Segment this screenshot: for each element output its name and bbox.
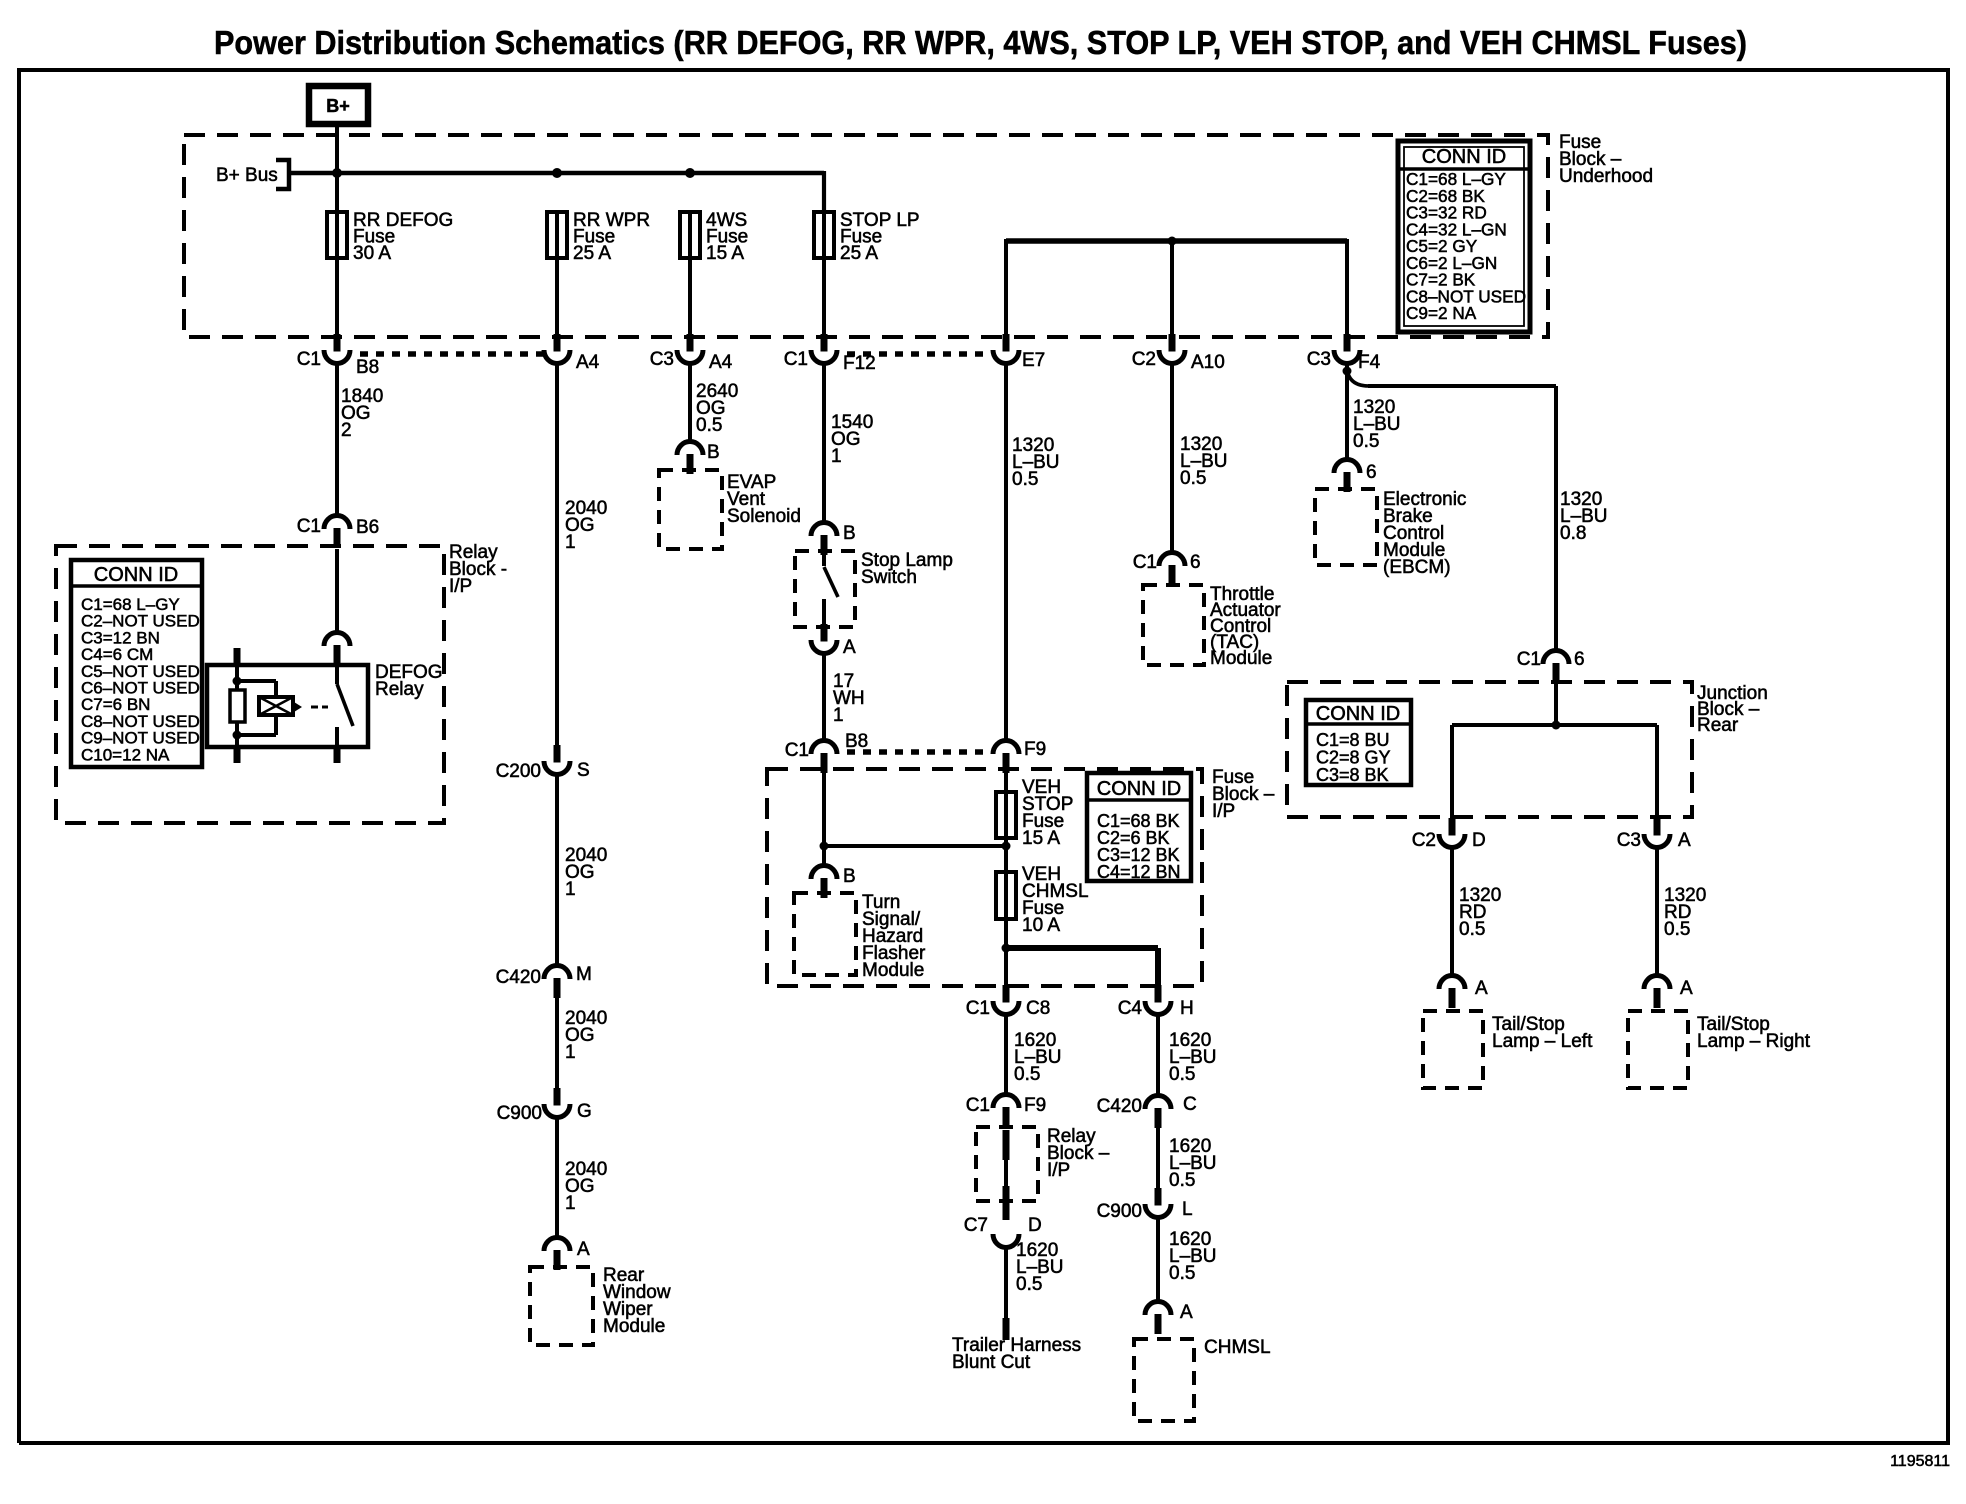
svg-text:C3: C3 xyxy=(1617,830,1641,851)
wire B+ to bus xyxy=(335,124,339,213)
mechanical link dashes xyxy=(311,706,318,709)
svg-text:B: B xyxy=(707,442,720,463)
svg-text:F9: F9 xyxy=(1024,1095,1046,1116)
svg-text:Relay: Relay xyxy=(375,679,424,700)
svg-text:25 A: 25 A xyxy=(573,243,611,264)
svg-text:C420: C420 xyxy=(496,967,541,988)
svg-text:C1: C1 xyxy=(966,998,990,1019)
connector C900 G xyxy=(554,1088,561,1106)
DEFOG relay pin stub upper left xyxy=(234,648,241,666)
connector at DEFOG relay coil xyxy=(324,633,350,647)
svg-text:Power Distribution Schematics: Power Distribution Schematics (RR DEFOG,… xyxy=(214,24,1747,61)
svg-text:1: 1 xyxy=(831,446,842,467)
connector F9 (fuse block I/P) xyxy=(993,741,1019,755)
connector C1 B8 (fuse block I/P) xyxy=(811,741,837,755)
connector C2 A10 xyxy=(1169,334,1176,352)
svg-text:F9: F9 xyxy=(1024,739,1046,760)
CONN ID table (Fuse Block - I/P) xyxy=(1087,773,1191,881)
wire switch to C1 B8 xyxy=(822,654,826,742)
wire coil branch xyxy=(237,679,276,683)
connector C4 H xyxy=(1155,985,1162,1003)
wire A10 to TAC xyxy=(1170,364,1174,554)
wire branch to C4 H xyxy=(1006,945,1158,951)
B+ power symbol xyxy=(309,86,368,124)
wire F4 to EBCM xyxy=(1345,364,1349,461)
Fuse Block - I/P dashed box xyxy=(767,769,1202,986)
svg-text:A: A xyxy=(1475,978,1488,999)
svg-text:E7: E7 xyxy=(1022,350,1045,371)
svg-text:C10=12 NA: C10=12 NA xyxy=(81,745,170,764)
DEFOG relay coil feed wire xyxy=(235,665,239,690)
junction feeder at A10 xyxy=(1168,237,1177,246)
svg-text:Module: Module xyxy=(862,960,924,981)
connector B at EVAP xyxy=(677,442,703,456)
resistor in DEFOG relay xyxy=(230,690,245,722)
connector C1 6 at TAC xyxy=(1159,553,1185,567)
svg-text:M: M xyxy=(576,964,592,985)
wire D to blunt cut xyxy=(1004,1247,1008,1320)
svg-text:Blunt Cut: Blunt Cut xyxy=(952,1352,1031,1373)
connector B at stop lamp switch xyxy=(811,523,837,537)
svg-text:Switch: Switch xyxy=(861,567,917,588)
CHMSL box xyxy=(1134,1339,1194,1421)
fuse STOP LP 25 A xyxy=(822,213,826,259)
connector C7 D xyxy=(1003,1186,1010,1220)
wire F12 to stop lamp switch xyxy=(822,364,826,524)
Relay Block - I/P dashed box xyxy=(56,546,444,823)
svg-text:15 A: 15 A xyxy=(1022,828,1060,849)
svg-text:1: 1 xyxy=(565,1042,576,1063)
svg-text:0.5: 0.5 xyxy=(1169,1170,1195,1191)
svg-text:C: C xyxy=(1183,1094,1197,1115)
DEFOG relay pin stub lower right xyxy=(334,747,341,763)
connector C1 C8 xyxy=(1003,985,1010,1003)
svg-text:D: D xyxy=(1472,830,1486,851)
connector C2 D xyxy=(1449,818,1456,836)
svg-text:A: A xyxy=(1678,830,1691,851)
wire RR WPR fuse to connector xyxy=(555,259,559,335)
svg-text:10 A: 10 A xyxy=(1022,915,1060,936)
svg-text:0.5: 0.5 xyxy=(1014,1064,1040,1085)
svg-text:CONN ID: CONN ID xyxy=(1316,703,1400,725)
junction tie left xyxy=(820,842,829,851)
connector C1 B8 (fuse block underhood) xyxy=(334,334,341,352)
svg-text:Underhood: Underhood xyxy=(1559,166,1653,187)
svg-text:B: B xyxy=(843,866,856,887)
svg-text:1: 1 xyxy=(565,879,576,900)
Fuse Block - Underhood dashed box xyxy=(184,135,1548,337)
wire F9 to VEH STOP fuse xyxy=(1004,772,1008,792)
svg-text:I/P: I/P xyxy=(1212,801,1235,822)
junction in junction block xyxy=(1552,721,1561,730)
junction tie right xyxy=(1002,842,1011,851)
svg-text:I/P: I/P xyxy=(1047,1160,1070,1181)
junction CHMSL branch xyxy=(1002,944,1011,953)
Tail/Stop Lamp - Left box xyxy=(1423,1011,1483,1088)
wire A to tail lamp right xyxy=(1655,848,1659,977)
svg-text:B8: B8 xyxy=(845,731,868,752)
connector C3 F4 xyxy=(1344,334,1351,352)
svg-text:A: A xyxy=(1180,1302,1193,1323)
svg-text:0.5: 0.5 xyxy=(696,415,722,436)
svg-text:1: 1 xyxy=(833,705,844,726)
connector C3 A xyxy=(1654,818,1661,836)
svg-text:B8: B8 xyxy=(356,357,379,378)
coil arrow xyxy=(294,702,302,712)
svg-text:0.5: 0.5 xyxy=(1664,919,1690,940)
wire between fuses xyxy=(1004,838,1008,872)
svg-text:A4: A4 xyxy=(709,352,733,373)
connector E7 xyxy=(1003,334,1010,352)
DEFOG relay pin stub lower left xyxy=(234,747,241,763)
connector A at CHMSL xyxy=(1145,1302,1171,1316)
svg-text:Module: Module xyxy=(1210,648,1272,669)
svg-text:0.5: 0.5 xyxy=(1180,468,1206,489)
svg-text:A: A xyxy=(843,637,856,658)
fuse 4WS 15 A xyxy=(688,213,692,259)
wire B+ bus xyxy=(289,171,824,176)
Rear Window Wiper Module box xyxy=(530,1267,593,1345)
EVAP Vent Solenoid box xyxy=(659,470,722,549)
wire C420 to C900 xyxy=(1156,1128,1160,1189)
connector A4 (RR WPR) xyxy=(554,334,561,352)
node B+ Bus bracket xyxy=(276,160,289,189)
svg-text:CONN ID: CONN ID xyxy=(1422,146,1506,168)
CONN ID table (Fuse Block - Underhood) xyxy=(1398,141,1530,332)
CONN ID table (Relay Block - I/P) xyxy=(71,560,202,767)
dotted connector line B8-A4 xyxy=(360,351,545,357)
connector C200 S xyxy=(554,745,561,763)
svg-text:C3=8 BK: C3=8 BK xyxy=(1316,765,1389,785)
CONN ID table (Junction Block - Rear) xyxy=(1306,700,1411,785)
wire F4 to junction block xyxy=(1347,369,1369,386)
svg-text:L: L xyxy=(1182,1199,1193,1220)
junction on bus at RR WPR xyxy=(552,168,562,178)
svg-text:0.5: 0.5 xyxy=(1012,469,1038,490)
Electronic Brake Control Module box xyxy=(1315,489,1377,565)
connector A at wiper module xyxy=(544,1238,570,1252)
svg-text:C1: C1 xyxy=(1133,552,1157,573)
svg-text:C3: C3 xyxy=(650,349,674,370)
connector C900 L xyxy=(1155,1188,1162,1206)
junction on bus at RR DEFOG xyxy=(332,168,342,178)
Junction Block - Rear dashed box xyxy=(1287,682,1692,817)
wire B8 to B6 xyxy=(335,364,339,517)
svg-text:C1: C1 xyxy=(297,349,321,370)
wire junction block split xyxy=(1554,684,1558,726)
wire A4 to EVAP xyxy=(688,364,692,443)
dotted connector line B8-F9 xyxy=(847,749,990,755)
svg-text:6: 6 xyxy=(1574,649,1585,670)
svg-text:C1: C1 xyxy=(785,740,809,761)
wire C900 to CHMSL xyxy=(1156,1218,1160,1303)
wire C420 to C900 xyxy=(555,998,559,1089)
connector A below switch xyxy=(821,624,828,642)
svg-text:30 A: 30 A xyxy=(353,243,391,264)
svg-text:25 A: 25 A xyxy=(840,243,878,264)
svg-text:G: G xyxy=(577,1101,592,1122)
svg-text:CONN ID: CONN ID xyxy=(94,564,178,586)
svg-text:C1: C1 xyxy=(297,516,321,537)
wire A4 to C200 xyxy=(555,364,559,746)
DEFOG relay box xyxy=(207,665,368,747)
connector C420 M xyxy=(544,966,570,980)
Stop Lamp Switch box xyxy=(795,551,855,627)
dotted connector line F12-E7 xyxy=(847,351,990,357)
svg-text:CONN ID: CONN ID xyxy=(1097,778,1181,800)
svg-text:Lamp – Right: Lamp – Right xyxy=(1697,1031,1811,1052)
connector 6 at EBCM xyxy=(1334,460,1360,474)
svg-text:C4=12 BN: C4=12 BN xyxy=(1097,862,1181,882)
svg-text:0.8: 0.8 xyxy=(1560,523,1586,544)
DEFOG relay switch xyxy=(335,665,339,684)
svg-text:0.5: 0.5 xyxy=(1016,1274,1042,1295)
wire C8 to F9 xyxy=(1004,1015,1008,1096)
svg-text:Lamp – Left: Lamp – Left xyxy=(1492,1031,1593,1052)
Throttle Actuator Control Module box xyxy=(1143,585,1204,665)
svg-text:C2: C2 xyxy=(1132,349,1156,370)
svg-text:C1: C1 xyxy=(966,1095,990,1116)
wire C900 to wiper module xyxy=(555,1118,559,1239)
fuse VEH CHMSL 10 A xyxy=(1004,872,1008,919)
svg-text:B+: B+ xyxy=(326,96,350,116)
svg-text:C200: C200 xyxy=(496,761,541,782)
wire RR DEFOG fuse to connector xyxy=(335,259,339,335)
connector C1 B6 xyxy=(324,516,350,530)
svg-text:0.5: 0.5 xyxy=(1169,1263,1195,1284)
connector C420 C xyxy=(1145,1096,1171,1110)
connector C1 6 at junction block xyxy=(1543,651,1569,665)
svg-text:C8: C8 xyxy=(1026,998,1050,1019)
Tail/Stop Lamp - Right box xyxy=(1628,1011,1688,1088)
svg-text:CHMSL: CHMSL xyxy=(1204,1337,1271,1358)
connector A at tail lamp left xyxy=(1439,976,1465,989)
wire tie stop lamp to fuses xyxy=(822,770,826,867)
fuse RR WPR 25 A xyxy=(555,213,559,259)
svg-text:B6: B6 xyxy=(356,517,379,538)
wire STOP LP fuse to connector xyxy=(822,259,826,335)
svg-text:Module: Module xyxy=(603,1316,665,1337)
svg-text:A4: A4 xyxy=(576,352,600,373)
connector A at tail lamp right xyxy=(1644,976,1670,989)
svg-text:0.5: 0.5 xyxy=(1459,919,1485,940)
wire B6 to DEFOG relay xyxy=(335,549,339,635)
junction on bus at 4WS xyxy=(685,168,695,178)
svg-text:I/P: I/P xyxy=(449,576,472,597)
svg-text:D: D xyxy=(1028,1215,1042,1236)
connector C1 F12 (STOP LP) xyxy=(821,334,828,352)
fuse RR DEFOG 30 A xyxy=(335,213,339,259)
svg-text:1: 1 xyxy=(565,1193,576,1214)
svg-text:C1: C1 xyxy=(1517,649,1541,670)
svg-text:S: S xyxy=(577,760,590,781)
svg-text:2: 2 xyxy=(341,420,352,441)
connector C1 F9 (relay block) xyxy=(993,1095,1019,1109)
fuse VEH STOP 15 A xyxy=(1004,792,1008,838)
svg-text:C420: C420 xyxy=(1097,1096,1142,1117)
svg-text:1195811: 1195811 xyxy=(1890,1453,1950,1470)
svg-text:C7: C7 xyxy=(964,1215,988,1236)
junction F4 branch xyxy=(1343,367,1352,376)
svg-text:C2: C2 xyxy=(1412,830,1436,851)
stop lamp switch contacts xyxy=(822,552,826,566)
svg-text:C4: C4 xyxy=(1118,998,1143,1019)
svg-text:0.5: 0.5 xyxy=(1169,1064,1195,1085)
svg-text:C900: C900 xyxy=(1097,1201,1142,1222)
wire resistor to lower node xyxy=(235,722,239,747)
svg-text:A: A xyxy=(1680,978,1693,999)
svg-text:6: 6 xyxy=(1366,462,1377,483)
svg-text:A10: A10 xyxy=(1191,352,1225,373)
svg-text:F4: F4 xyxy=(1358,352,1381,373)
svg-text:H: H xyxy=(1180,998,1194,1019)
wire through relay block xyxy=(1003,1130,1010,1160)
wire C200 to C420 xyxy=(555,775,559,967)
wire E7 to F9 xyxy=(1004,364,1008,742)
wire 4WS fuse to connector xyxy=(688,259,692,335)
wire feeder E7-A10-F4 xyxy=(1006,238,1347,244)
svg-text:15 A: 15 A xyxy=(706,243,744,264)
wire D to tail lamp left xyxy=(1450,848,1454,977)
svg-text:1: 1 xyxy=(565,532,576,553)
DEFOG relay coil xyxy=(259,697,293,715)
svg-text:C900: C900 xyxy=(497,1103,542,1124)
svg-text:Rear: Rear xyxy=(1697,715,1739,736)
svg-text:C3: C3 xyxy=(1307,349,1331,370)
svg-text:6: 6 xyxy=(1190,552,1201,573)
Turn Signal/Hazard Flasher Module box xyxy=(794,893,856,975)
connector B at flasher module xyxy=(811,866,837,879)
svg-text:C9=2 NA: C9=2 NA xyxy=(1406,303,1477,323)
svg-text:C1: C1 xyxy=(784,349,808,370)
svg-text:B: B xyxy=(843,523,856,544)
trailer harness blunt cut end xyxy=(1003,1318,1010,1340)
wire CHMSL fuse down xyxy=(1004,919,1008,986)
svg-text:B+ Bus: B+ Bus xyxy=(216,165,278,186)
svg-text:0.5: 0.5 xyxy=(1353,431,1379,452)
svg-text:(EBCM): (EBCM) xyxy=(1383,557,1451,578)
Relay Block - I/P small dashed box xyxy=(976,1127,1038,1201)
svg-text:Solenoid: Solenoid xyxy=(727,506,801,527)
svg-text:A: A xyxy=(577,1239,590,1260)
wire H to C420 xyxy=(1156,1015,1160,1097)
connector C3 A4 (4WS) xyxy=(687,334,694,352)
